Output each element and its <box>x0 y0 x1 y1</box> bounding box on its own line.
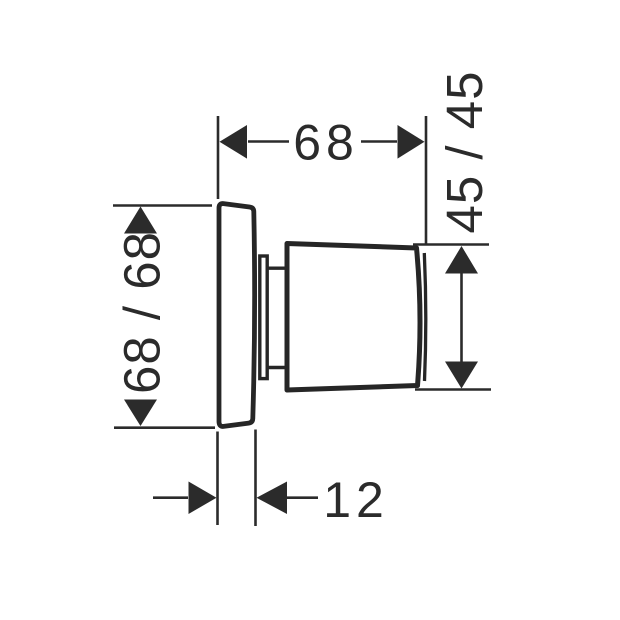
bottom dim left extension line <box>216 432 219 526</box>
bottom dim right arrow (points left) <box>257 482 288 515</box>
left dim up arrow <box>124 207 157 234</box>
svg-text:45 / 45: 45 / 45 <box>436 71 493 234</box>
bottom dim left arrow (points right) <box>189 482 217 515</box>
svg-text:68 / 68: 68 / 68 <box>114 231 171 394</box>
extension line knob bottom right <box>415 388 491 391</box>
extension line top of plate (left dim) <box>113 204 212 207</box>
knob front face curve <box>424 253 426 381</box>
bottom dim leader right <box>287 496 318 499</box>
right dim up arrow <box>445 246 478 274</box>
bottom dim right extension line <box>254 430 257 527</box>
right dim down arrow <box>445 362 478 389</box>
dim 68 right arrow <box>398 125 425 159</box>
stem bottom line <box>267 366 286 369</box>
svg-text:68: 68 <box>293 115 359 171</box>
left dim down arrow <box>124 400 157 427</box>
extension line knob top right <box>413 243 489 246</box>
dim 68 left arrow <box>220 125 248 159</box>
extension line left of top 68 dimension <box>217 116 220 199</box>
extension line bottom of plate (left dim) <box>114 426 215 429</box>
handle knob (side view) <box>287 244 420 391</box>
dim 68 leader left <box>248 140 289 143</box>
bottom dim leader left <box>153 496 188 499</box>
extension line right of top 68 dimension (knob front face) <box>425 116 428 244</box>
dim 68 leader right <box>361 140 397 143</box>
svg-text:12: 12 <box>323 472 389 528</box>
sleeve ring between plate and handle <box>260 256 267 379</box>
escutcheon plate (side view) <box>219 204 255 427</box>
right dim line <box>460 273 463 362</box>
stem top line <box>267 267 286 270</box>
